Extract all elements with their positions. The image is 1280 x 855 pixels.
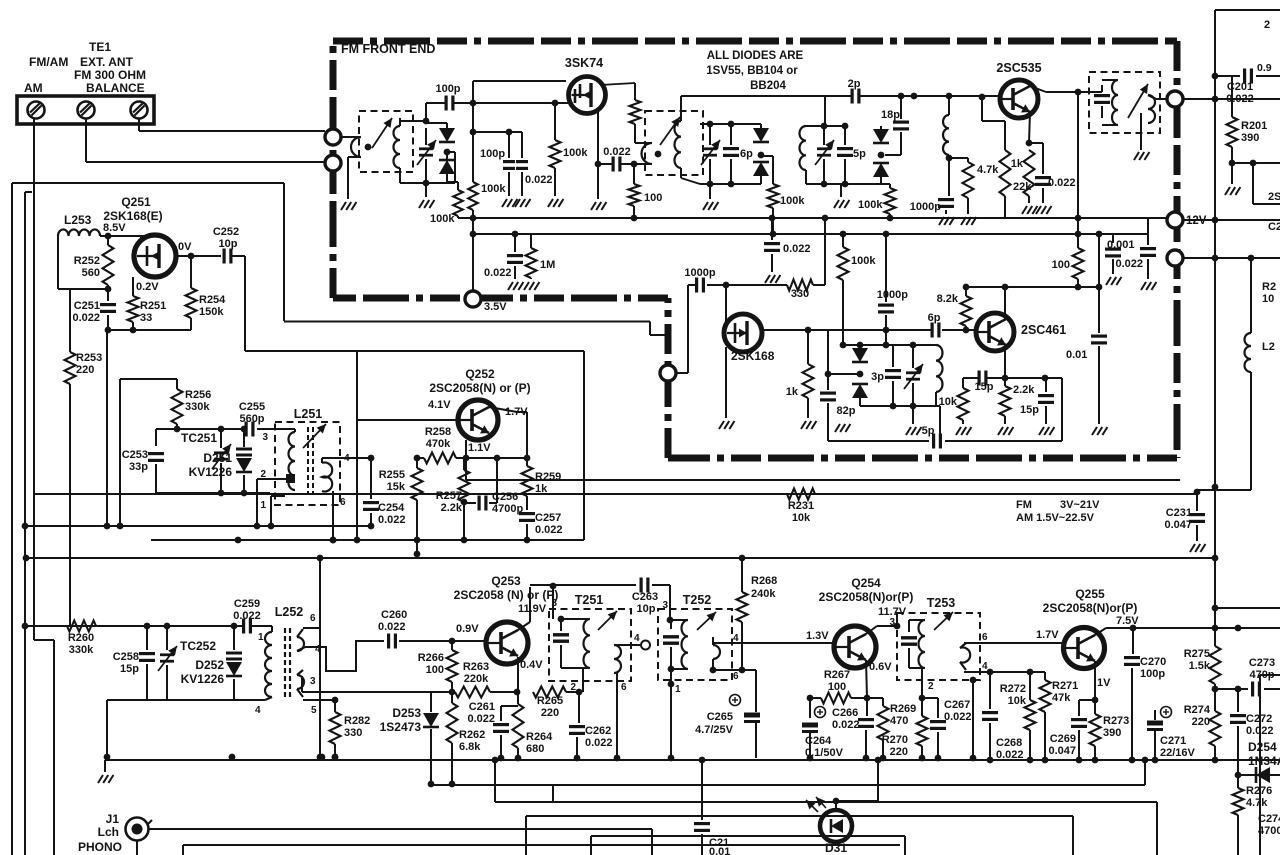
svg-text:2.2k: 2.2k [1013, 384, 1035, 396]
transistor Q255 [1064, 628, 1105, 669]
capacitor 0.022 (AGC) [769, 215, 776, 222]
svg-text:R275: R275 [1184, 648, 1210, 660]
svg-text:150k: 150k [199, 306, 224, 318]
wire AM antenna down left side [33, 118, 35, 640]
svg-text:240k: 240k [751, 588, 776, 600]
resistor 10k (osc) [962, 378, 964, 388]
svg-text:22/16V: 22/16V [1160, 747, 1196, 759]
svg-text:100p: 100p [1140, 668, 1165, 680]
svg-text:4.7/25V: 4.7/25V [695, 724, 734, 736]
wire AM tuner line [22, 623, 29, 630]
capacitor C270 100p [1132, 628, 1134, 654]
capacitor 1000p (mixer gate) [695, 278, 698, 293]
svg-text:3: 3 [889, 617, 895, 628]
svg-text:560: 560 [82, 267, 100, 279]
svg-text:4.1V: 4.1V [428, 399, 451, 411]
svg-text:C262: C262 [585, 725, 611, 737]
svg-text:330: 330 [344, 727, 362, 739]
wire T252 pin3 [669, 585, 671, 620]
svg-text:0.1/50V: 0.1/50V [805, 747, 844, 759]
svg-text:R269: R269 [890, 703, 916, 715]
tuning transformer (interstage) dashed box [645, 111, 703, 175]
svg-text:TC252: TC252 [180, 639, 216, 653]
svg-text:6: 6 [340, 497, 346, 508]
svg-text:D251: D251 [203, 451, 232, 465]
resistor R276 4.7k [1237, 775, 1239, 788]
resistor R257 2.2k [463, 458, 465, 470]
coil primary (output transformer) [1112, 80, 1118, 125]
svg-text:R270: R270 [882, 734, 908, 746]
wire 2p row [681, 95, 852, 97]
resistor 100 (drain load) [633, 164, 635, 184]
trimmer arrow L251 [303, 424, 326, 448]
svg-text:560p: 560p [239, 413, 264, 425]
svg-text:0.022: 0.022 [944, 711, 972, 723]
capacitor 82p [827, 374, 829, 390]
svg-text:R263: R263 [463, 661, 489, 673]
svg-text:6: 6 [982, 632, 988, 643]
wire C252 route down [244, 256, 246, 351]
resistor R264 680 [517, 692, 519, 704]
resistor R271 47k [1044, 672, 1046, 680]
coil secondary (output transformer) [1148, 95, 1155, 123]
pin6 L251 [332, 491, 334, 540]
resistor R231 10k [787, 489, 815, 500]
svg-text:R251: R251 [140, 300, 166, 312]
svg-text:1000p: 1000p [877, 289, 908, 301]
svg-text:C201: C201 [1227, 81, 1253, 93]
terminal circle (IF output) [1167, 91, 1183, 107]
wire tank3 top rail [806, 125, 845, 127]
trimmer TC251 [220, 429, 222, 448]
capacitor 0.022 (bias cell) [512, 231, 519, 238]
wire outer return line [11, 183, 13, 855]
pin4 T252 wire to Q254 [712, 637, 714, 645]
resistor R265 220 [533, 687, 566, 698]
svg-text:2SC2058(N)or(P): 2SC2058(N)or(P) [1043, 601, 1138, 615]
wire aux out [1183, 257, 1280, 259]
pin4 L252 staircase to C260 [305, 641, 384, 671]
svg-text:0.022: 0.022 [378, 514, 406, 526]
svg-text:680: 680 [526, 743, 544, 755]
svg-text:1.3V: 1.3V [806, 630, 829, 642]
phono shield box inner [526, 815, 1073, 817]
svg-text:2: 2 [570, 682, 576, 693]
wire Q254 emitter [866, 660, 867, 698]
svg-text:2SC2058(N) or (P): 2SC2058(N) or (P) [429, 381, 530, 395]
svg-text:D252: D252 [195, 658, 224, 672]
svg-text:220: 220 [890, 746, 908, 758]
svg-text:C2: C2 [1268, 221, 1280, 233]
transistor Q252 [458, 400, 498, 440]
coil L251 secondary [322, 463, 332, 492]
capacitor C253 33p [155, 429, 157, 446]
svg-text:2.2k: 2.2k [441, 502, 463, 514]
terminal strip TE1 box [17, 96, 154, 124]
svg-text:6: 6 [621, 682, 627, 693]
svg-text:15p: 15p [1020, 404, 1039, 416]
svg-text:2S: 2S [1268, 191, 1280, 203]
capacitor C259 0.022 [242, 619, 245, 634]
svg-text:5: 5 [311, 705, 317, 716]
resistor R269 470 [867, 697, 883, 699]
capacitor C21 0.01 [699, 757, 706, 764]
svg-text:100k: 100k [430, 213, 455, 225]
wire tank2 top rail [700, 123, 761, 125]
svg-text:6p: 6p [928, 312, 941, 324]
capacitor T251 primary [560, 619, 562, 631]
svg-text:330k: 330k [69, 644, 94, 656]
coil primary hook (interstage) [642, 143, 653, 164]
ground (bottom rail) [98, 775, 103, 783]
trimmer arrow (interstage) [660, 117, 680, 145]
svg-text:ALL DIODES ARE: ALL DIODES ARE [707, 50, 804, 62]
svg-text:6p: 6p [740, 148, 753, 160]
resistor 1M (bias cell) [530, 234, 532, 248]
svg-text:EXT. ANT: EXT. ANT [80, 55, 134, 69]
svg-text:R268: R268 [751, 575, 777, 587]
wire 3SK74 drain with resistor [600, 83, 635, 85]
svg-text:1000p: 1000p [910, 201, 941, 213]
svg-text:1V: 1V [1097, 677, 1111, 689]
wire R201 node [1232, 162, 1280, 164]
svg-text:220: 220 [1192, 716, 1210, 728]
wire 330 to bus [813, 284, 825, 286]
wire Q253 base [399, 640, 486, 642]
resistor R268 240k [739, 555, 746, 562]
svg-text:L252: L252 [275, 605, 304, 619]
svg-text:Q253: Q253 [491, 574, 521, 588]
terminal EXT ANT screw [78, 102, 95, 119]
svg-text:2SC2058(N)or(P): 2SC2058(N)or(P) [819, 590, 914, 604]
svg-text:D254: D254 [1248, 740, 1277, 754]
svg-text:0.022: 0.022 [783, 243, 811, 255]
svg-text:TE1: TE1 [89, 40, 111, 54]
resistor R266 100 [451, 641, 453, 650]
svg-text:0V: 0V [178, 241, 192, 253]
capacitor C252 10p [223, 249, 226, 264]
svg-text:Q252: Q252 [465, 367, 495, 381]
resistor 100k (AGC divider) [468, 182, 478, 210]
svg-text:8.2k: 8.2k [937, 293, 959, 305]
wire gate1 line [453, 102, 571, 104]
svg-text:100: 100 [644, 192, 662, 204]
wire coil top to node [399, 118, 401, 126]
svg-text:0.022: 0.022 [378, 621, 406, 633]
svg-text:1S2473: 1S2473 [380, 720, 422, 734]
capacitor C231 0.047 [1194, 489, 1201, 496]
transformer T251 dashed box [549, 609, 631, 681]
wire tank3 bottom rail [806, 183, 881, 185]
svg-text:1.5k: 1.5k [1189, 660, 1211, 672]
resistor R260 330k [67, 621, 96, 632]
svg-text:2: 2 [928, 681, 934, 692]
svg-text:1k: 1k [1011, 158, 1024, 170]
svg-text:100: 100 [1052, 259, 1070, 271]
resistor 1k [1024, 150, 1035, 196]
wire collector to transformer [1092, 91, 1102, 93]
svg-text:3p: 3p [871, 371, 884, 383]
wire long line y480 [465, 458, 467, 480]
coil primary hook [351, 137, 361, 157]
wire D31 [835, 801, 837, 810]
wire T251 pin3 [550, 583, 557, 590]
resistor R258 470k [424, 453, 456, 464]
svg-text:R264: R264 [526, 731, 553, 743]
svg-text:R252: R252 [74, 255, 100, 267]
wire Q255 emitter [1094, 661, 1096, 700]
svg-text:0.022: 0.022 [585, 737, 613, 749]
svg-text:0.022: 0.022 [233, 610, 261, 622]
coil T251 primary [583, 619, 590, 668]
svg-text:C259: C259 [234, 598, 260, 610]
svg-text:2SK168: 2SK168 [731, 349, 775, 363]
svg-text:D31: D31 [825, 841, 847, 855]
wire mixer out to step [676, 372, 688, 374]
svg-text:0.022: 0.022 [1048, 177, 1076, 189]
wire mixer source to ground [725, 347, 727, 418]
resistor R253 220 [69, 289, 71, 352]
wire row y540 left [151, 539, 357, 541]
svg-text:FM FRONT END: FM FRONT END [341, 42, 435, 56]
svg-text:J1: J1 [106, 812, 120, 826]
capacitor 100p (RF in) [445, 96, 448, 111]
coil T252 primary [681, 620, 688, 669]
svg-text:330k: 330k [185, 401, 210, 413]
svg-text:8.5V: 8.5V [103, 222, 126, 234]
pin2 T251 [582, 668, 584, 692]
resistor 1k (mixer) [807, 330, 809, 364]
capacitor 5p (feedback) [828, 440, 929, 442]
svg-text:10p: 10p [219, 238, 238, 250]
svg-text:10p: 10p [637, 603, 656, 615]
resistor 100k (varactor return) [446, 152, 448, 182]
capacitor C272 0.022 [1237, 689, 1239, 712]
svg-text:C271: C271 [1160, 735, 1186, 747]
resistor R252 560 [107, 236, 109, 245]
wire mixer output [762, 329, 828, 331]
ground (3SK74 source) [591, 202, 596, 210]
varactor D252 KV1226 [233, 626, 235, 650]
svg-text:2SC461: 2SC461 [1021, 323, 1066, 337]
transistor Q253 [486, 622, 528, 664]
svg-text:Lch: Lch [98, 825, 119, 839]
wire L252 cell bottom rail dots [229, 754, 236, 761]
svg-text:390: 390 [1103, 727, 1121, 739]
wire secondary bottom [680, 168, 682, 178]
resistor R255 15k [416, 458, 418, 468]
svg-text:1.1V: 1.1V [468, 442, 491, 454]
wire tank2 bottom rail [700, 183, 761, 185]
svg-text:470: 470 [890, 715, 908, 727]
coil T251 secondary [614, 645, 621, 673]
coil L251 primary [289, 432, 296, 490]
capacitor C271 22/16V electrolytic [1147, 721, 1163, 726]
svg-text:C254: C254 [378, 502, 405, 514]
capacitor C265 4.7/25V electrolytic [755, 670, 757, 712]
resistor R262 6.8k [451, 692, 453, 703]
capacitor C269 0.047 [1079, 699, 1095, 701]
svg-text:R256: R256 [185, 389, 211, 401]
wire Q255 collector rail [1095, 628, 1106, 635]
capacitor C262 0.022 [578, 692, 580, 723]
svg-text:82p: 82p [837, 405, 856, 417]
wire 3SK74 source [597, 110, 599, 164]
resistor R254 150k [190, 256, 192, 288]
svg-text:5p: 5p [853, 148, 866, 160]
svg-text:10k: 10k [939, 396, 958, 408]
pin4 L251 [321, 458, 323, 463]
svg-text:C268: C268 [996, 737, 1022, 749]
phono shield box outer [183, 844, 900, 846]
capacitor 6p (osc coupling) [828, 329, 931, 331]
svg-text:0.047: 0.047 [1164, 519, 1192, 531]
wire 2SC535 collector [1030, 86, 1046, 92]
svg-text:AM: AM [24, 81, 43, 95]
wire IF out [1183, 98, 1280, 100]
svg-text:R274: R274 [1184, 704, 1211, 716]
output transformer dashed box [1089, 72, 1160, 133]
ground (osc tank) [906, 427, 911, 435]
svg-text:Q255: Q255 [1075, 587, 1105, 601]
wire T253 shield [972, 680, 974, 758]
svg-text:KV1226: KV1226 [189, 465, 233, 479]
transformer T252 dashed box [658, 609, 732, 680]
varactor diode pair (input tank) [426, 122, 447, 124]
wire secondary top to 2p row [680, 96, 682, 121]
svg-text:C266: C266 [832, 707, 858, 719]
capacitor 15p (osc) [977, 371, 980, 386]
trimmer arrow T253 [934, 612, 953, 630]
svg-text:47k: 47k [1052, 692, 1071, 704]
wire base bias 22k [979, 94, 986, 101]
svg-text:C265: C265 [707, 711, 733, 723]
coil T253 secondary [960, 647, 970, 662]
svg-text:C256: C256 [492, 491, 518, 503]
transistor Q254 [834, 626, 876, 668]
svg-text:4700p: 4700p [1258, 825, 1280, 837]
svg-text:330: 330 [791, 288, 809, 300]
wire collector feed column [1077, 92, 1079, 218]
terminal AM screw [28, 102, 45, 119]
ground (R201) [1231, 163, 1233, 184]
svg-text:33p: 33p [129, 461, 148, 473]
capacitor 1000p (osc) [885, 234, 887, 302]
wire TC251 cell bottom rail [156, 492, 270, 494]
capacitor 6p [730, 124, 732, 145]
svg-text:L2: L2 [1262, 341, 1275, 353]
svg-text:100: 100 [828, 681, 846, 693]
svg-text:TC251: TC251 [181, 431, 217, 445]
svg-text:100k: 100k [851, 255, 876, 267]
svg-text:3.5V: 3.5V [484, 301, 507, 313]
svg-text:0.01: 0.01 [709, 846, 730, 855]
svg-text:1000p: 1000p [684, 267, 715, 279]
svg-text:R259: R259 [535, 471, 561, 483]
svg-text:470k: 470k [426, 438, 451, 450]
wire FM antenna balanced pair [138, 118, 140, 131]
svg-text:0.4V: 0.4V [520, 659, 543, 671]
svg-text:0.022: 0.022 [1226, 93, 1254, 105]
pin6 L252 [303, 627, 320, 629]
pin6 T251 [616, 673, 618, 758]
resistor R274 220 [1210, 711, 1221, 746]
trimmer arrow (output transformer) [1128, 84, 1148, 118]
svg-text:C253: C253 [122, 449, 148, 461]
ground (tank3) [834, 200, 839, 208]
resistor R267 100 [810, 697, 821, 699]
inductor L253 [58, 229, 100, 236]
wire AGC long line [26, 557, 1215, 559]
coil T253 primary [919, 620, 926, 668]
ground (tank2) [703, 202, 708, 210]
coil L252 secondary upper [297, 637, 304, 651]
svg-text:0.022: 0.022 [484, 267, 512, 279]
varactor pair (tank2) [760, 124, 762, 128]
capacitor 5p [844, 126, 846, 145]
trimmer cap (tank2) [709, 124, 711, 145]
svg-text:0.047: 0.047 [1048, 745, 1076, 757]
svg-text:C258: C258 [113, 651, 139, 663]
resistor R282 330 [334, 700, 336, 712]
svg-text:22k: 22k [1013, 181, 1032, 193]
capacitor 0.022 (emitter) [1029, 142, 1043, 144]
capacitor 18p [900, 96, 902, 119]
svg-text:C263: C263 [632, 591, 658, 603]
ground (antenna input) [341, 202, 346, 210]
svg-text:100k: 100k [481, 183, 506, 195]
pin1 T252 [670, 669, 672, 758]
wire Q254 collector [866, 626, 877, 634]
wire 8.5V node [100, 235, 136, 237]
wire TC252 cell bottom rail [107, 699, 265, 701]
resistor 100k (tank3 bias) [881, 183, 890, 185]
svg-text:C269: C269 [1050, 733, 1076, 745]
svg-text:100p: 100p [435, 83, 460, 95]
wire right feed column [1212, 484, 1219, 491]
svg-text:C261: C261 [469, 701, 495, 713]
trimmer (osc tank) [912, 345, 914, 368]
svg-text:4700p: 4700p [492, 503, 523, 515]
svg-text:220: 220 [541, 707, 559, 719]
svg-text:390: 390 [1241, 132, 1259, 144]
svg-text:2SC2058 (N) or (P): 2SC2058 (N) or (P) [454, 588, 559, 602]
resistor 330 (mixer bias) [787, 280, 813, 291]
svg-text:T253: T253 [927, 596, 956, 610]
wire osc tank bottom rail [860, 405, 940, 407]
resistor R275 1.5k [1214, 628, 1216, 646]
svg-text:T251: T251 [575, 593, 604, 607]
resistor R259 1k [522, 466, 533, 496]
resistor R272 10k [1027, 669, 1034, 676]
FM FRONT END shield border (dash-dot) [333, 38, 1177, 45]
terminal 12V [1167, 212, 1183, 228]
svg-text:6: 6 [733, 671, 739, 682]
svg-text:2: 2 [1264, 19, 1270, 31]
svg-text:R260: R260 [68, 632, 94, 644]
wire FM/AM voltage line [34, 493, 1197, 495]
adjacent section frame (top right) [1215, 9, 1280, 11]
wire base line [465, 440, 467, 458]
resistor 2.2k (osc) [1004, 378, 1006, 386]
svg-text:15p: 15p [120, 663, 139, 675]
pin6 T253 to Q255 base [964, 642, 1063, 644]
wire tank bottom rail [400, 182, 455, 184]
wire to C251 [58, 288, 108, 290]
capacitor C268 0.022 [987, 669, 994, 676]
capacitor C263 10p [530, 584, 636, 586]
svg-text:10k: 10k [792, 512, 811, 524]
